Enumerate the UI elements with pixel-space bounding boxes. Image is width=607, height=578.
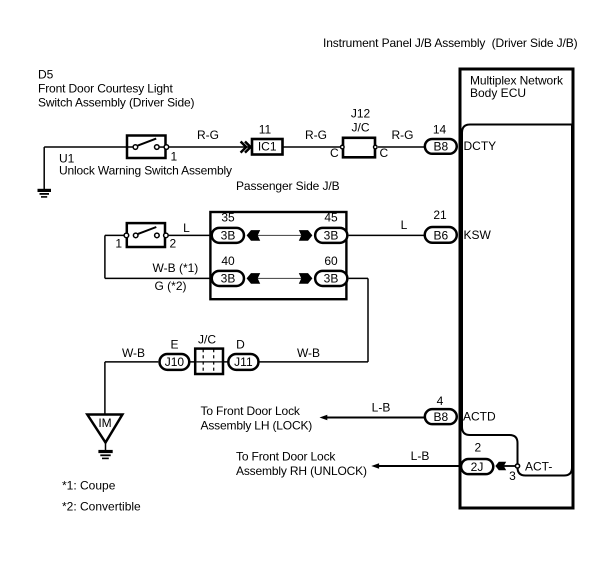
ground point IM triangle xyxy=(87,415,122,443)
svg-text:E: E xyxy=(170,338,178,352)
svg-text:Switch Assembly (Driver Side): Switch Assembly (Driver Side) xyxy=(38,96,195,110)
svg-text:J/C: J/C xyxy=(198,333,216,347)
wire: B8 ACTD to front door lock LH (L-B) xyxy=(326,417,426,419)
svg-text:Passenger Side J/B: Passenger Side J/B xyxy=(236,179,340,193)
svg-text:L: L xyxy=(183,221,190,235)
arrow into 2J from pin 3 xyxy=(504,465,516,467)
connector J10 pin E xyxy=(160,354,190,370)
svg-text:3B: 3B xyxy=(324,272,339,286)
svg-text:1: 1 xyxy=(171,150,178,164)
svg-text:W-B: W-B xyxy=(297,346,320,360)
svg-text:Assembly LH (LOCK): Assembly LH (LOCK) xyxy=(201,418,313,432)
internal arrows row 2 xyxy=(257,277,302,279)
svg-text:3B: 3B xyxy=(324,229,339,243)
svg-text:11: 11 xyxy=(259,123,272,137)
splice chevrons into IC1 xyxy=(241,142,251,153)
Passenger Side J/B box xyxy=(210,212,346,299)
svg-text:J12: J12 xyxy=(351,107,371,121)
svg-text:R-G: R-G xyxy=(197,128,219,142)
svg-text:3B: 3B xyxy=(221,272,236,286)
wire: 2J to front door lock RH (L-B) xyxy=(378,465,462,467)
svg-text:B8: B8 xyxy=(433,140,448,154)
wire: ground up and across to switch U1 xyxy=(43,147,45,190)
svg-text:35: 35 xyxy=(221,210,235,224)
wire: J10 left to IM ground (W-B) xyxy=(105,361,158,363)
svg-text:L: L xyxy=(401,218,408,232)
svg-text:Front Door Courtesy Light: Front Door Courtesy Light xyxy=(38,82,173,96)
svg-text:IC1: IC1 xyxy=(258,139,277,153)
svg-text:Unlock Warning Switch Assembly: Unlock Warning Switch Assembly xyxy=(59,164,232,178)
Multiplex Network Body ECU inner rounded box xyxy=(462,125,572,476)
svg-text:2: 2 xyxy=(474,441,481,455)
svg-text:D5: D5 xyxy=(38,68,54,82)
svg-text:W-B (*1): W-B (*1) xyxy=(153,261,199,275)
ECU outer box Instrument Panel J/B xyxy=(460,69,573,508)
svg-text:*2: Convertible: *2: Convertible xyxy=(62,500,141,514)
svg-text:L-B: L-B xyxy=(372,401,391,415)
svg-text:DCTY: DCTY xyxy=(464,139,497,153)
wire: switch pin1 left, down, to 3B-40 (W-B/G) xyxy=(105,234,124,236)
wire: 3B-60 right and down to W-B run xyxy=(349,277,368,279)
switch U1 unlock warning switch xyxy=(127,136,169,159)
svg-text:ACT-: ACT- xyxy=(525,459,552,473)
svg-text:B8: B8 xyxy=(433,410,448,424)
svg-text:J10: J10 xyxy=(165,355,185,369)
wire: switch pin2 to 3B-35 (L) xyxy=(169,234,212,236)
svg-text:R-G: R-G xyxy=(305,128,327,142)
svg-text:3: 3 xyxy=(509,469,516,483)
svg-text:J/C: J/C xyxy=(352,121,370,135)
svg-text:2J: 2J xyxy=(471,460,484,474)
svg-text:IM: IM xyxy=(98,416,111,430)
svg-text:To Front Door Lock: To Front Door Lock xyxy=(236,449,336,463)
svg-text:Assembly RH (UNLOCK): Assembly RH (UNLOCK) xyxy=(236,464,367,478)
svg-text:L-B: L-B xyxy=(411,449,430,463)
svg-text:3B: 3B xyxy=(221,229,236,243)
svg-text:21: 21 xyxy=(433,208,447,222)
internal arrows row 1 xyxy=(257,234,302,236)
svg-text:14: 14 xyxy=(433,123,447,137)
wire: U1 to IC1 (R-G) xyxy=(169,146,250,148)
wire: IC1 to J12 (R-G) xyxy=(284,146,341,148)
svg-text:Instrument Panel J/B Assembly: Instrument Panel J/B Assembly (Driver Si… xyxy=(323,36,578,50)
svg-text:ACTD: ACTD xyxy=(463,409,496,423)
svg-text:D: D xyxy=(236,338,245,352)
svg-text:To Front Door Lock: To Front Door Lock xyxy=(201,404,301,418)
svg-text:40: 40 xyxy=(221,254,235,268)
wire: 3B-45 to B6 KSW (L) xyxy=(349,234,425,236)
ground (IM) xyxy=(98,452,112,459)
svg-text:*1: Coupe: *1: Coupe xyxy=(62,479,116,493)
svg-text:G (*2): G (*2) xyxy=(155,279,187,293)
svg-text:B6: B6 xyxy=(433,228,448,242)
switch (door courtesy, passenger) xyxy=(124,223,168,247)
wire: J12 to B8 DCTY (R-G) xyxy=(378,146,425,148)
svg-text:R-G: R-G xyxy=(392,128,414,142)
ground (top left) xyxy=(38,190,52,197)
pin 3 node on ECU internal xyxy=(515,464,519,468)
J/C box with dashed pins xyxy=(195,349,223,374)
connector J11 pin D xyxy=(228,354,258,370)
svg-text:J11: J11 xyxy=(234,355,253,369)
svg-text:45: 45 xyxy=(324,210,338,224)
svg-text:60: 60 xyxy=(324,254,338,268)
svg-text:W-B: W-B xyxy=(122,346,145,360)
svg-text:4: 4 xyxy=(437,394,444,408)
svg-text:2: 2 xyxy=(170,237,177,251)
svg-text:KSW: KSW xyxy=(464,228,492,242)
svg-text:Body ECU: Body ECU xyxy=(470,86,526,100)
svg-text:C: C xyxy=(380,146,389,160)
svg-text:C: C xyxy=(330,146,339,160)
svg-text:1: 1 xyxy=(115,237,122,251)
